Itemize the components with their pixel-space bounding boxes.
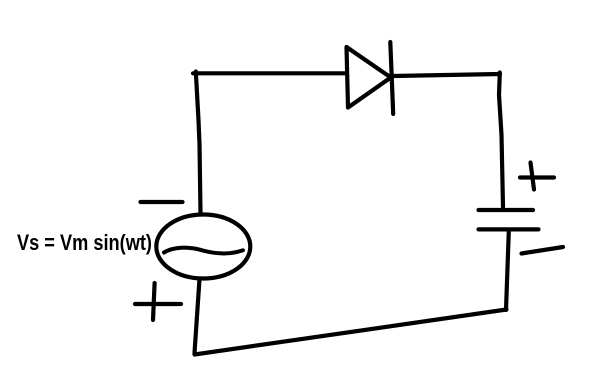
plus sign at source bottom	[135, 302, 181, 306]
ac source V1	[156, 215, 250, 279]
wire bottom	[195, 310, 507, 355]
capacitor C1 top plate	[479, 208, 534, 212]
wire from diode to top-right corner	[393, 74, 500, 76]
svg-text:Vs = Vm sin(wt): Vs = Vm sin(wt)	[17, 230, 152, 255]
diode D1 cathode bar	[390, 42, 393, 114]
wire from source bottom	[195, 279, 200, 353]
wire left vertical	[196, 72, 201, 214]
wire top from source to diode	[193, 71, 346, 75]
minus sign at capacitor bottom	[522, 247, 564, 254]
plus sign at capacitor top	[520, 175, 554, 179]
capacitor C1 bottom plate	[479, 227, 539, 231]
minus sign at source top	[141, 200, 183, 204]
sine wave inside source	[164, 248, 243, 254]
diode D1 triangle	[347, 47, 391, 108]
wire from capacitor down	[506, 231, 509, 310]
wire right vertical to capacitor	[499, 73, 503, 208]
